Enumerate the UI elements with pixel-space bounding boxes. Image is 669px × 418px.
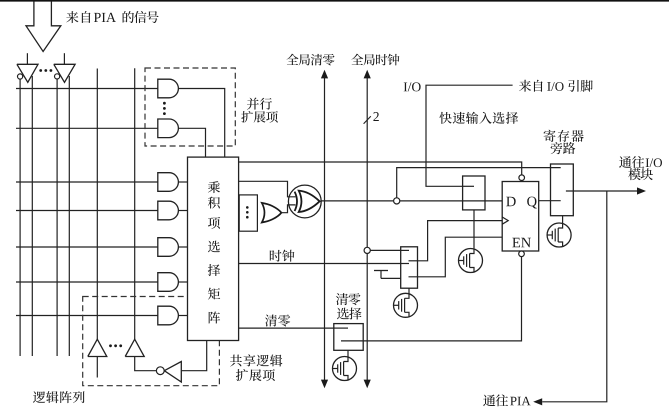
clock mux select stub: [408, 288, 410, 293]
OR input box: [239, 195, 257, 231]
ellipsis between drivers: [39, 69, 42, 72]
DFF clock edge symbol: [502, 217, 508, 224]
array column line (expander feedback 1): [96, 69, 98, 340]
array row line 4: [16, 210, 158, 212]
global clear line: [324, 78, 326, 380]
inverter: [164, 362, 181, 383]
label 全局清零: [286, 54, 334, 66]
global clear arrow up: [321, 70, 328, 79]
output arrow: [637, 187, 646, 194]
driver input stub 2: [63, 53, 65, 64]
wire 时钟 line: [239, 263, 401, 265]
AND gate A1: [158, 173, 179, 192]
DFF label Q: [527, 197, 537, 209]
array column line (T2 true): [68, 76, 70, 356]
wire bypass out: [566, 190, 638, 192]
array column line (T1 complement): [19, 79, 21, 356]
wire OR out: [281, 205, 295, 213]
label 清零选择: [336, 293, 361, 305]
wire A2 out: [178, 210, 187, 212]
bus slash 2: [364, 116, 371, 124]
label 寄存器旁路: [544, 130, 584, 142]
wire clear out: [341, 257, 522, 341]
wire A5 out: [178, 315, 187, 317]
clock select mux: [401, 247, 418, 288]
node circle: [394, 198, 400, 204]
clear select mux: [334, 324, 363, 351]
global clock line: [366, 78, 368, 380]
shared expander dashed box: [83, 297, 220, 386]
buffer B1: [88, 339, 107, 356]
label 来自 I/O 引脚: [519, 80, 543, 92]
PIA input bus arrow: [26, 2, 61, 52]
array row line 1: [16, 88, 158, 90]
array row line 3: [16, 181, 158, 183]
AND gate P2 (parallel expander): [158, 119, 179, 138]
global clear arrow down: [321, 380, 328, 389]
AND gate A2: [158, 201, 179, 220]
clock mux seg a: [401, 249, 409, 251]
label 共享逻辑扩展项: [230, 354, 282, 366]
node stub to bypass: [397, 168, 561, 198]
array row line 6: [16, 281, 158, 283]
AND gate P1 (parallel expander): [158, 79, 179, 98]
fast mux select stub: [473, 210, 475, 249]
wire 清零 line: [239, 327, 334, 329]
label 快速输入选择: [439, 112, 518, 124]
wire clock tap: [370, 249, 400, 251]
wire inverter input from matrix: [181, 341, 206, 371]
XOR circle: [288, 185, 321, 218]
DFF box: [502, 182, 539, 252]
label 全局时钟: [351, 54, 399, 66]
wire B enable to FF: [409, 237, 503, 277]
wire A3 out: [178, 246, 187, 248]
DFF label EN: [512, 238, 531, 247]
array row line 2: [16, 127, 158, 129]
array column line (expander feedback 2): [134, 68, 136, 339]
wire XOR top input: [239, 181, 296, 197]
product term select matrix box: [188, 157, 239, 340]
array column line (T2 complement): [56, 79, 58, 356]
label 清零: [265, 315, 290, 327]
PIA arrow: [533, 398, 542, 405]
fast input select mux: [463, 176, 485, 210]
label 通往 I/O 模块: [619, 156, 644, 168]
DFF preset bubble: [519, 175, 525, 181]
wire feedback to PIA: [542, 191, 607, 402]
OR input ellipsis: [246, 206, 249, 209]
array row line 7: [16, 315, 158, 317]
eeprom cell E2: [394, 293, 418, 317]
label 逻辑阵列: [33, 391, 85, 403]
clock tap circle: [364, 247, 370, 253]
label 乘积项选择矩阵: [208, 181, 220, 193]
AND gate A4: [158, 273, 179, 292]
AND gate A5 (shared expander): [158, 306, 179, 325]
label 通往 PIA: [483, 394, 508, 406]
array row line 5: [16, 246, 158, 248]
page top border: [0, 0, 669, 2]
DFF clear bubble: [519, 251, 525, 257]
eeprom cell E4: [547, 223, 571, 247]
ellipsis between P1/P2: [163, 102, 166, 105]
register bypass mux: [551, 164, 574, 216]
wire Q to bypass: [539, 200, 561, 202]
driver T1: [17, 64, 38, 82]
wire preset line: [239, 162, 522, 175]
AND gate A3: [158, 238, 179, 257]
wire P1 out: [178, 89, 224, 158]
driver T2: [54, 64, 75, 82]
wire from I/O pin: [426, 85, 513, 186]
label 来自 PIA 的信号: [66, 11, 90, 23]
wire A4 out: [178, 281, 187, 283]
bypass select stub: [562, 216, 564, 223]
clear mux select stub: [347, 350, 349, 356]
OR gate: [262, 203, 282, 223]
label 时钟: [270, 250, 295, 262]
driver T2 complement bubble: [55, 74, 60, 79]
global clock arrow down: [364, 380, 371, 389]
wire B2 input: [135, 357, 157, 371]
global clock arrow up: [364, 70, 371, 79]
inverter bubble: [156, 367, 164, 375]
fast mux I/O input segment: [463, 185, 474, 187]
label I/O: [404, 82, 421, 91]
buffer B1 input stub: [96, 357, 98, 378]
wire P2 out: [178, 128, 205, 157]
wire A1 out: [178, 181, 187, 183]
parallel expander dashed box: [145, 68, 235, 146]
XOR gate: [299, 191, 320, 212]
wire A clock to FF: [409, 260, 418, 262]
array column line (T1 true): [31, 76, 33, 356]
DFF label D: [506, 197, 515, 207]
clear mux input segment: [334, 327, 348, 329]
ellipsis between buffers: [109, 344, 112, 347]
clock mux seg b: [401, 263, 409, 265]
buffer B2: [125, 339, 144, 356]
driver input stub 1: [26, 53, 28, 64]
eeprom cell E3: [333, 357, 357, 381]
wire XOR out to D: [321, 200, 502, 202]
vcc symbol: [374, 270, 388, 272]
label 并行扩展项: [247, 98, 272, 110]
eeprom cell E1: [459, 249, 483, 273]
driver T1 complement bubble: [18, 74, 23, 79]
